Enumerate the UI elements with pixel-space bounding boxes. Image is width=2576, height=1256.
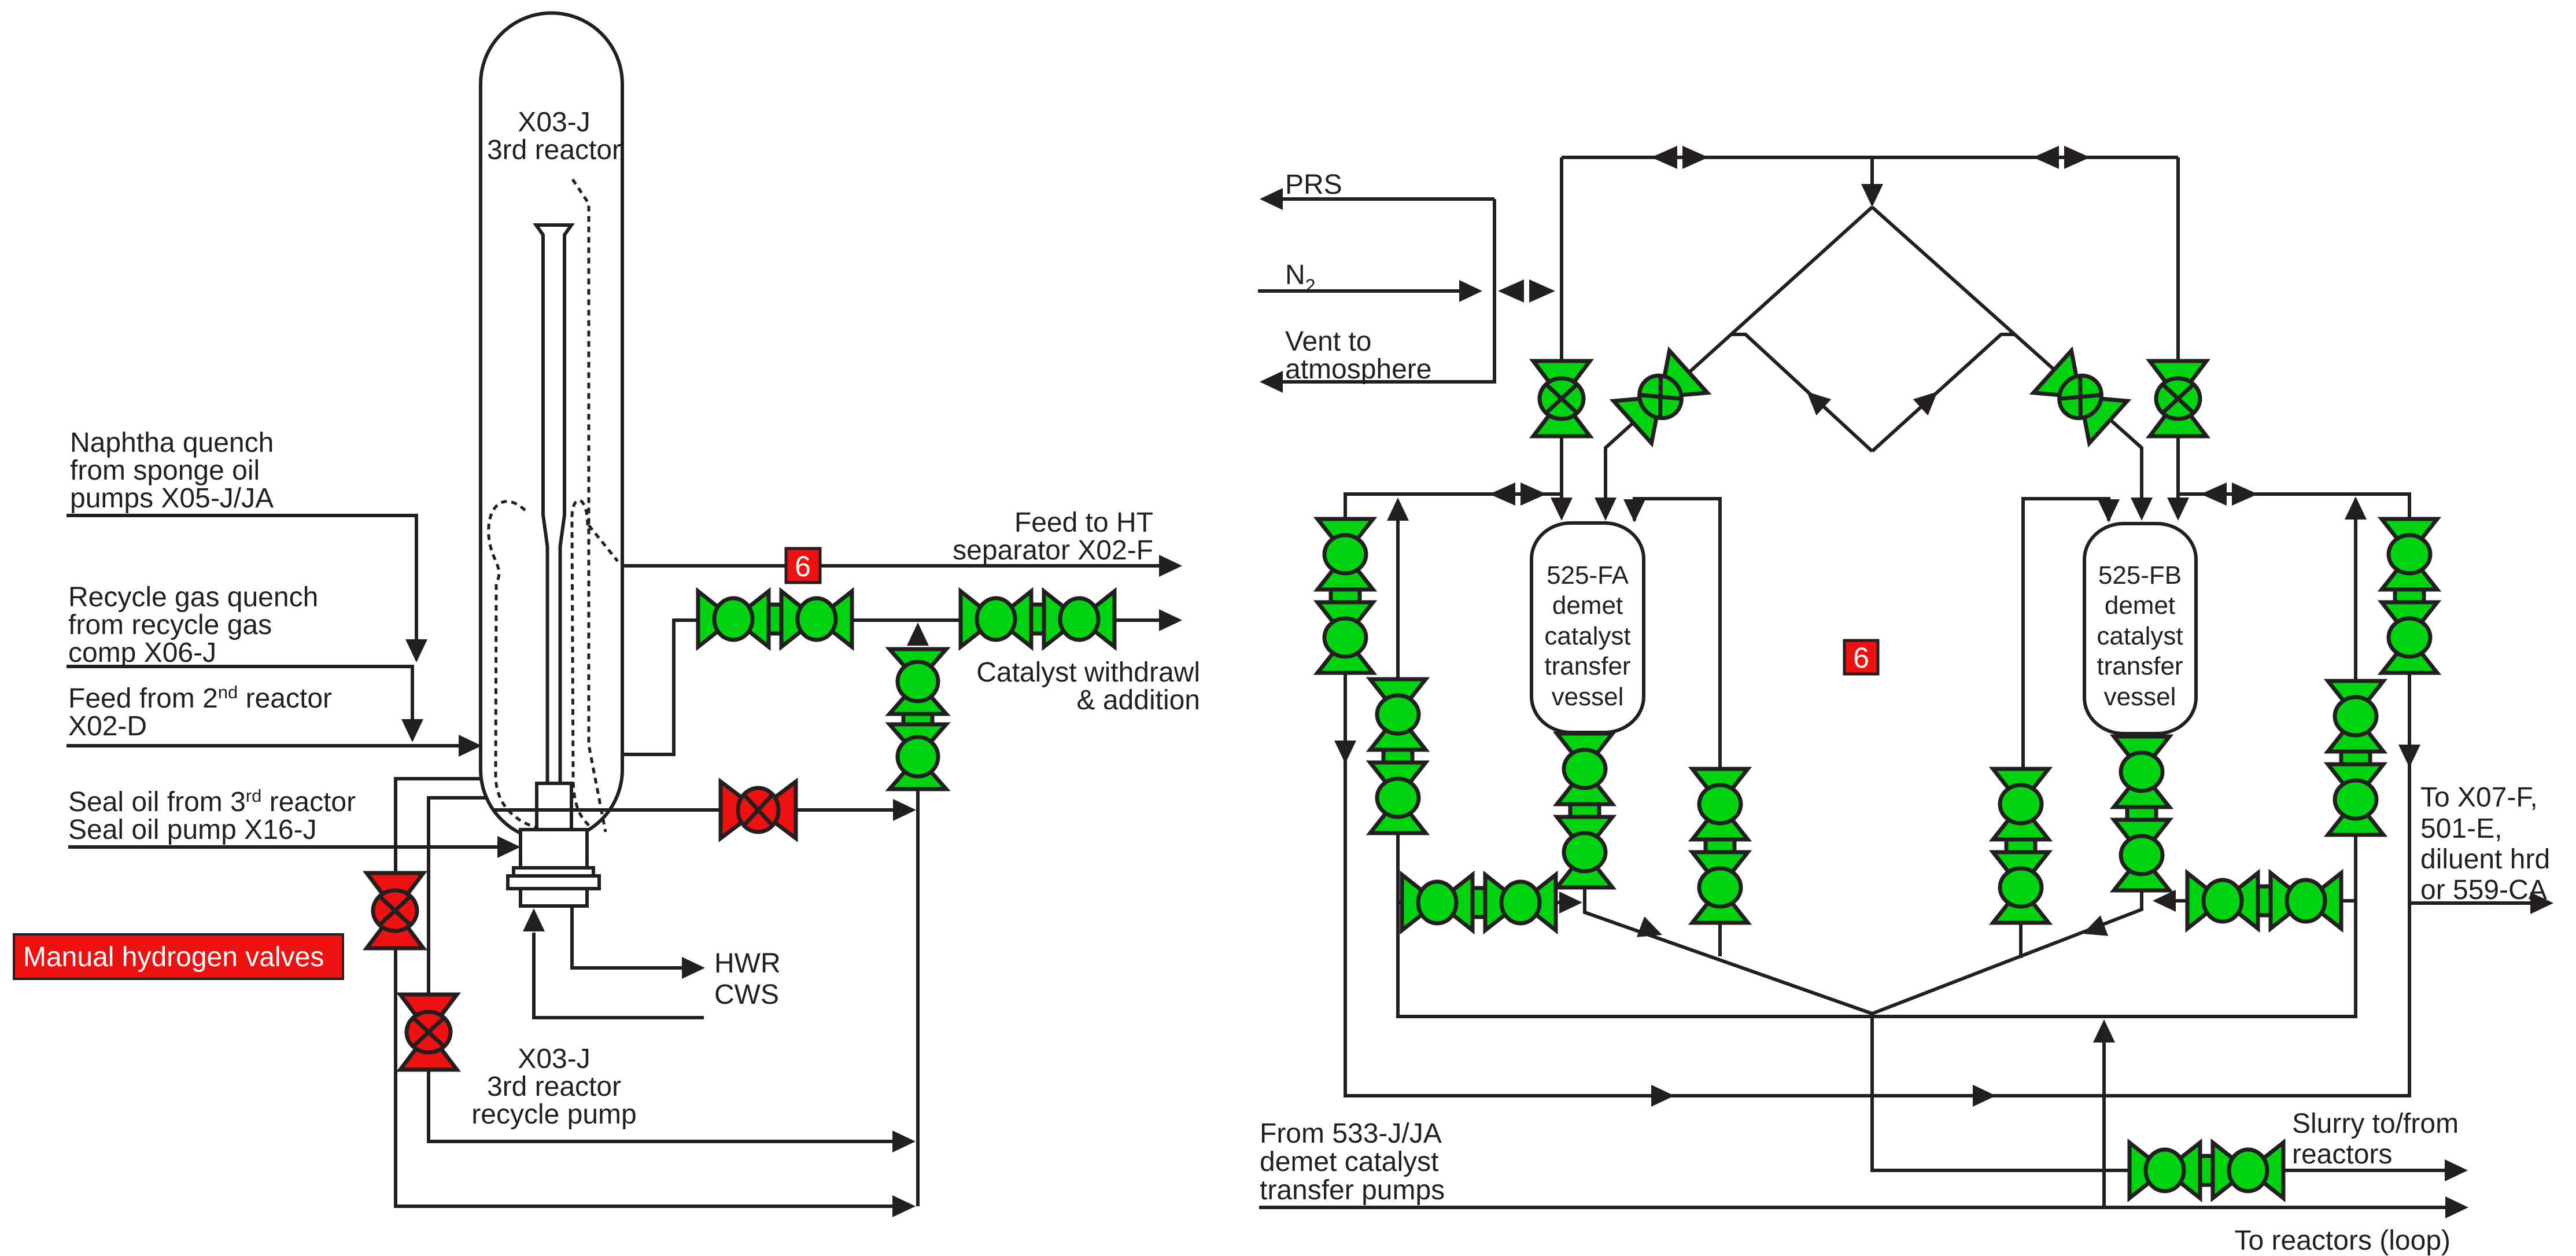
wire mid stack FA stub — [1718, 920, 1722, 956]
svg-text:vessel: vessel — [1552, 683, 1624, 711]
dashed internal dip tube (right) — [573, 179, 618, 832]
svg-text:transfer pumps: transfer pumps — [1260, 1175, 1445, 1206]
svg-text:Feed to HT: Feed to HT — [1014, 507, 1153, 538]
wire HWR CWS — [572, 906, 705, 979]
wire diamond lower-left edge — [1731, 334, 1872, 451]
wire from 533-J/JA pumps — [1259, 1196, 2468, 1218]
svg-text:X03-J: X03-J — [518, 107, 590, 138]
wire feed from 2nd reactor — [67, 735, 482, 757]
dashed internal middle hook — [572, 500, 590, 826]
svg-text:or 559-CA: or 559-CA — [2420, 875, 2547, 905]
wire FB drain valve line — [2153, 890, 2356, 912]
svg-text:Naphtha quench: Naphtha quench — [70, 428, 274, 458]
svg-text:525-FA: 525-FA — [1547, 561, 1629, 590]
valve pair (catalyst line) — [961, 591, 1114, 647]
svg-text:Vent to: Vent to — [1285, 326, 1371, 357]
svg-text:CWS: CWS — [714, 979, 779, 1010]
wire FA bottom to collector vertex — [1585, 732, 1872, 1014]
label box manual hydrogen valves — [14, 934, 343, 979]
wire naphtha quench — [67, 515, 427, 662]
wire PRS — [1260, 188, 1494, 210]
svg-text:from sponge oil: from sponge oil — [70, 455, 260, 486]
svg-text:demet: demet — [2105, 591, 2175, 620]
svg-text:3rd reactor: 3rd reactor — [487, 1071, 621, 1102]
label slurry to from reactors — [2292, 1108, 2459, 1170]
svg-text:Manual hydrogen valves: Manual hydrogen valves — [23, 942, 324, 973]
svg-text:reactors: reactors — [2292, 1139, 2392, 1170]
wire FA top right branch to mid stack — [1623, 499, 1720, 771]
wire inner loop (stack2 / mid run / stack B) — [1387, 496, 2367, 1016]
wire vent to atmosphere — [1260, 199, 1494, 393]
valve pair slurry — [2130, 1143, 2283, 1198]
valve (45deg FB) — [2034, 351, 2127, 443]
svg-text:transfer: transfer — [1544, 652, 1630, 680]
flow marker left header — [1489, 482, 1547, 506]
valve stack B — [2328, 681, 2383, 835]
wire outer loop (left riser / bottom run / right riser) — [1345, 494, 2409, 1096]
valve stack FB bottom — [2114, 736, 2169, 890]
vessel X03-J 3rd reactor — [481, 13, 622, 840]
svg-text:6: 6 — [795, 550, 811, 583]
svg-text:Recycle gas quench: Recycle gas quench — [68, 582, 318, 613]
valve pair FB drain — [2187, 873, 2341, 929]
svg-text:3rd reactor: 3rd reactor — [487, 135, 621, 165]
svg-text:Seal oil pump X16-J: Seal oil pump X16-J — [68, 815, 317, 845]
arrow FA diagonal — [1637, 916, 1666, 945]
valve pair (feed line) — [698, 591, 852, 647]
tag 6 (left) — [786, 548, 820, 583]
svg-text:separator X02-F: separator X02-F — [953, 535, 1153, 566]
wire X07-F outlet — [2409, 892, 2553, 914]
label HWR CWS — [714, 948, 781, 1010]
arrow FB diagonal — [2079, 915, 2108, 944]
valve stack FA bottom — [1557, 734, 1612, 887]
svg-text:catalyst: catalyst — [2097, 622, 2183, 650]
wire hydrogen line B (lower tap) — [429, 798, 916, 1152]
manual hydrogen valve V2 — [400, 995, 457, 1070]
valve stack (catalyst drain) — [890, 649, 946, 789]
valve stack 1 (left riser) — [1317, 519, 1373, 673]
vessel 525-FA — [1531, 523, 1644, 732]
valve (FB fill riser) — [2150, 361, 2206, 436]
wire top header — [1562, 156, 2178, 159]
arrow right riser down — [2398, 745, 2420, 768]
label 525-FB — [2097, 561, 2183, 711]
valve stack A (right riser) — [2382, 519, 2437, 673]
wire diamond upper-left edge — [1595, 207, 1872, 521]
pump flange lower — [508, 876, 599, 889]
svg-text:From 533-J/JA: From 533-J/JA — [1260, 1118, 1442, 1149]
wire mid stack FB stub — [2019, 920, 2023, 958]
svg-text:Seal oil from 3rd reactor: Seal oil from 3rd reactor — [68, 786, 356, 817]
wire drain riser (below catalyst junction) — [907, 623, 929, 1206]
vessel 525-FB — [2084, 524, 2196, 734]
wire seal oil drain line — [493, 799, 916, 821]
pump neck — [521, 830, 587, 869]
label seal oil — [68, 786, 356, 845]
label from 533-J/JA — [1260, 1118, 1445, 1206]
wire catalyst withdrawal line — [622, 609, 1182, 754]
pump base — [521, 889, 587, 906]
svg-text:comp X06-J: comp X06-J — [68, 638, 216, 668]
label feed from 2nd reactor — [68, 682, 332, 742]
wire riser into 525-FA (left) — [1551, 157, 1573, 521]
svg-text:from recycle gas: from recycle gas — [68, 610, 272, 640]
internal pump barrel — [537, 783, 571, 833]
svg-text:catalyst: catalyst — [1544, 622, 1630, 650]
wire recycle gas quench — [67, 666, 423, 742]
wire FB top left branch to mid stack — [2023, 499, 2120, 771]
label to X07-F — [2420, 782, 2550, 905]
pump flange upper — [514, 868, 593, 876]
svg-text:demet catalyst: demet catalyst — [1260, 1147, 1438, 1177]
label feed to HT separator — [953, 507, 1153, 566]
wire feed to HT separator — [622, 555, 1182, 577]
dashed internal left hook — [489, 502, 536, 827]
center quench tube — [536, 225, 571, 783]
flow marker right header — [2201, 482, 2258, 506]
flow marker header left — [1651, 146, 1708, 169]
valve stack mid FB — [1993, 769, 2049, 923]
arrow bottom run mid-right — [1973, 1085, 1996, 1107]
wire diamond lower-right edge — [1872, 334, 2015, 451]
valve pair FA drain — [1402, 875, 1556, 930]
flow marker N2 junction — [1498, 279, 1555, 303]
svg-text:atmosphere: atmosphere — [1285, 354, 1431, 385]
wire hydrogen line A (upper tap) — [396, 779, 916, 1217]
valve stack 2 — [1370, 679, 1426, 833]
wire N2 — [1258, 280, 1482, 302]
valve (45deg FA) — [1614, 351, 1707, 443]
label X03-J 3rd reactor (top) — [487, 107, 621, 165]
svg-text:transfer: transfer — [2097, 652, 2183, 680]
svg-text:Catalyst withdrawl: Catalyst withdrawl — [976, 657, 1200, 688]
valve stack mid FA — [1692, 769, 1748, 923]
svg-text:PRS: PRS — [1285, 170, 1342, 200]
wire header drop to diamond — [1861, 157, 1883, 207]
svg-text:525-FB: 525-FB — [2098, 561, 2182, 590]
manual hydrogen valve V1 — [367, 873, 423, 948]
flow marker header right — [2033, 146, 2090, 169]
label catalyst withdrawal — [976, 657, 1200, 716]
label vent to atmosphere — [1285, 326, 1431, 385]
valve (FA fill riser) — [1533, 361, 1590, 436]
svg-text:Slurry to/from: Slurry to/from — [2292, 1108, 2459, 1139]
svg-text:6: 6 — [1853, 642, 1869, 674]
wire FA drain valve line — [1398, 892, 1582, 914]
svg-text:To reactors (loop): To reactors (loop) — [2235, 1225, 2450, 1256]
svg-text:recycle pump: recycle pump — [471, 1099, 636, 1130]
wire pump inlet — [523, 908, 704, 1018]
svg-text:X03-J: X03-J — [518, 1044, 590, 1074]
svg-text:501-E,: 501-E, — [2420, 813, 2502, 844]
label X03-J 3rd reactor recycle pump — [471, 1044, 636, 1130]
wire seal oil supply — [68, 836, 521, 858]
label 525-FA — [1544, 561, 1630, 711]
arrow left riser down — [1334, 741, 1356, 764]
svg-text:To X07-F,: To X07-F, — [2420, 782, 2538, 813]
wire riser into 525-FB (right) — [2167, 157, 2189, 521]
svg-text:X02-D: X02-D — [68, 711, 147, 742]
label naphtha quench — [70, 428, 274, 514]
svg-text:vessel: vessel — [2104, 683, 2176, 711]
wire diamond upper-right edge — [1872, 207, 2153, 521]
wire slurry line — [1872, 1014, 2468, 1181]
svg-text:pumps X05-J/JA: pumps X05-J/JA — [70, 483, 274, 514]
svg-text:demet: demet — [1552, 591, 1623, 620]
svg-text:& addition: & addition — [1077, 685, 1201, 716]
svg-text:Feed from 2nd reactor: Feed from 2nd reactor — [68, 682, 332, 714]
arrow bottom run mid-left — [1651, 1085, 1674, 1107]
label recycle gas quench — [68, 582, 318, 668]
svg-text:HWR: HWR — [714, 948, 781, 979]
wire pump discharge riser — [2093, 1019, 2115, 1207]
svg-text:diluent hrd: diluent hrd — [2420, 844, 2550, 875]
seal oil valve (red) — [721, 782, 796, 838]
wire FB bottom to collector vertex — [1872, 734, 2142, 1014]
tag 6 (right) — [1844, 640, 1878, 674]
